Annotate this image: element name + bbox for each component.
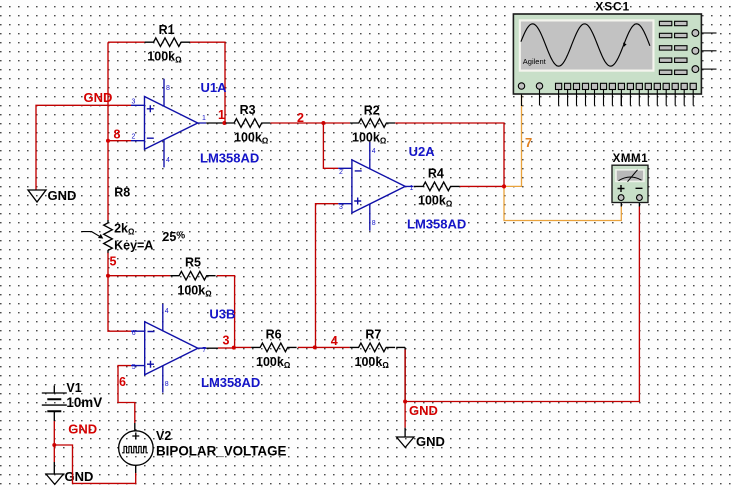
svg-text:U2A: U2A bbox=[409, 144, 436, 159]
node 2 junction bbox=[321, 121, 325, 125]
wire node7 to scope (orange) bbox=[504, 92, 522, 186]
source V2 BIPOLAR_VOLTAGE bbox=[119, 429, 287, 465]
wire node 4 up to U2A + input bbox=[315, 204, 338, 348]
wire node7 to XMM1 + (orange) bbox=[504, 186, 621, 220]
node 4 junction bbox=[313, 345, 317, 349]
svg-text:GND: GND bbox=[409, 403, 438, 418]
ground bottom-left bbox=[46, 469, 93, 484]
wire R4 to node 7 bbox=[460, 185, 504, 187]
svg-text:1: 1 bbox=[202, 115, 206, 122]
wire R1 top loop bbox=[108, 42, 225, 122]
svg-text:BIPOLAR_VOLTAGE: BIPOLAR_VOLTAGE bbox=[156, 444, 287, 459]
GND junction near R7 bbox=[403, 400, 407, 404]
wire node5 down to U3B - input bbox=[108, 276, 131, 332]
potentiometer R8 bbox=[81, 186, 185, 254]
svg-text:GND: GND bbox=[65, 469, 94, 484]
svg-text:3: 3 bbox=[339, 204, 343, 211]
wire node 2 down to U2A - input bbox=[323, 123, 338, 168]
wire node 2 to R2 bbox=[323, 122, 350, 124]
resistor R6 bbox=[251, 328, 296, 370]
svg-text:GND: GND bbox=[416, 434, 445, 449]
op-amp U2A bbox=[338, 142, 413, 231]
svg-text:8: 8 bbox=[166, 85, 170, 92]
wire node 8 to U1A - input bbox=[108, 140, 131, 142]
svg-text:Key=A: Key=A bbox=[114, 239, 153, 253]
wire R2 right to node 7 (down right side) bbox=[395, 123, 504, 186]
svg-text:GND: GND bbox=[84, 90, 113, 105]
svg-text:8: 8 bbox=[372, 220, 376, 227]
wire U3B output to node 3 bbox=[206, 347, 218, 349]
svg-text:R4: R4 bbox=[428, 167, 444, 181]
svg-text:2: 2 bbox=[297, 111, 304, 125]
svg-text:8: 8 bbox=[114, 128, 121, 142]
svg-text:6: 6 bbox=[132, 330, 136, 337]
svg-text:2: 2 bbox=[339, 169, 343, 176]
wire junction down to ground symbol bbox=[53, 445, 55, 462]
svg-text:R7: R7 bbox=[365, 328, 381, 342]
svg-text:1: 1 bbox=[410, 185, 414, 192]
svg-text:6: 6 bbox=[119, 375, 126, 389]
svg-text:8: 8 bbox=[165, 381, 169, 388]
resistor R7 bbox=[350, 328, 395, 370]
svg-text:LM358AD: LM358AD bbox=[201, 375, 260, 390]
wire GND junction down to ground bbox=[404, 402, 406, 428]
svg-text:R3: R3 bbox=[240, 103, 256, 117]
wire R5 right down to node 3 bbox=[217, 276, 235, 348]
battery V1 bbox=[42, 381, 102, 421]
ground GND top-left bbox=[28, 188, 76, 203]
op-amp U1A bbox=[131, 79, 206, 168]
svg-text:3: 3 bbox=[132, 98, 136, 105]
resistor R1 bbox=[145, 23, 190, 65]
wire pot to node 5 bbox=[107, 253, 109, 276]
wire node 3 to R6 bbox=[234, 346, 251, 348]
svg-text:GND: GND bbox=[48, 188, 77, 203]
V1 GND junction bbox=[52, 443, 56, 447]
ground near R7 bbox=[397, 434, 445, 449]
svg-text:LM358AD: LM358AD bbox=[200, 151, 259, 166]
svg-text:3: 3 bbox=[223, 334, 230, 348]
svg-text:4: 4 bbox=[331, 334, 338, 348]
node 5 junction bbox=[106, 274, 110, 278]
svg-text:R2: R2 bbox=[364, 104, 380, 118]
svg-text:R1: R1 bbox=[159, 23, 175, 37]
svg-text:XSC1: XSC1 bbox=[595, 0, 630, 14]
svg-text:U3B: U3B bbox=[209, 307, 235, 322]
wire node5 to R5 bbox=[108, 275, 170, 277]
multimeter XMM1 bbox=[612, 153, 648, 203]
svg-text:4: 4 bbox=[165, 308, 169, 315]
resistor R5 bbox=[170, 256, 215, 299]
wire GND to U1A + input bbox=[36, 105, 131, 190]
node 1 junction bbox=[222, 121, 226, 125]
op-amp U3B bbox=[131, 304, 206, 393]
svg-text:LM358AD: LM358AD bbox=[407, 217, 466, 232]
wire node1-R3 to node 2 bbox=[270, 122, 323, 124]
svg-text:XMM1: XMM1 bbox=[613, 153, 649, 165]
svg-text:1: 1 bbox=[218, 108, 225, 122]
wire U3B + input to V2 top bbox=[118, 366, 135, 423]
oscilloscope XSC1 bbox=[513, 0, 716, 106]
wire XMM1 + black stub bbox=[620, 92, 622, 207]
node 8 junction bbox=[106, 139, 110, 143]
wire node 4 to R7 bbox=[315, 346, 350, 348]
wire R6 to node 4 bbox=[298, 346, 315, 348]
svg-text:7: 7 bbox=[202, 347, 206, 354]
node 3 junction bbox=[232, 346, 236, 350]
wire V1 to GND junction bbox=[53, 421, 55, 445]
svg-text:7: 7 bbox=[525, 135, 532, 150]
svg-text:4: 4 bbox=[166, 157, 170, 164]
svg-text:GND: GND bbox=[68, 422, 97, 437]
wire R7 right corner down to GND junction bbox=[396, 347, 405, 401]
wire U1A output to node 1 bbox=[206, 122, 224, 124]
svg-text:R5: R5 bbox=[185, 256, 201, 270]
resistor R2 bbox=[350, 104, 395, 146]
resistor R4 bbox=[414, 167, 460, 209]
svg-text:R8: R8 bbox=[114, 186, 130, 200]
svg-text:R6: R6 bbox=[266, 328, 282, 342]
svg-text:V2: V2 bbox=[156, 429, 171, 443]
svg-text:4: 4 bbox=[372, 148, 376, 155]
node 7 junction bbox=[502, 184, 506, 188]
wire net8: R1 left vertical / pot top (x=108) bbox=[107, 42, 109, 220]
svg-text:V1: V1 bbox=[66, 381, 81, 395]
svg-text:5: 5 bbox=[110, 255, 117, 269]
svg-text:10mV: 10mV bbox=[66, 395, 102, 410]
svg-text:5: 5 bbox=[132, 364, 136, 371]
svg-text:U1A: U1A bbox=[201, 80, 228, 95]
wire V1 junction to V2 bottom bbox=[54, 445, 135, 483]
svg-text:Agilent: Agilent bbox=[523, 57, 547, 66]
wire GND junction to XMM1 - terminal bbox=[405, 207, 639, 402]
svg-text:2: 2 bbox=[132, 134, 136, 141]
resistor R3 bbox=[226, 103, 271, 146]
